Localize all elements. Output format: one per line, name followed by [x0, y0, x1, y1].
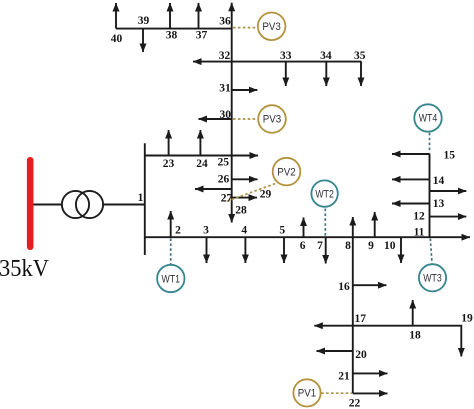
svg-text:28: 28: [235, 205, 247, 217]
svg-text:5: 5: [279, 225, 285, 237]
svg-text:26: 26: [218, 173, 230, 185]
svg-text:23: 23: [163, 158, 175, 170]
svg-text:2: 2: [175, 225, 181, 237]
svg-text:29: 29: [260, 188, 272, 200]
svg-text:24: 24: [196, 158, 208, 170]
svg-text:PV3: PV3: [262, 21, 281, 33]
svg-text:36: 36: [219, 16, 231, 28]
svg-text:39: 39: [138, 15, 150, 27]
svg-text:8: 8: [345, 240, 351, 252]
svg-text:9: 9: [368, 240, 374, 252]
svg-text:PV1: PV1: [298, 388, 317, 400]
svg-text:25: 25: [218, 157, 230, 169]
svg-text:WT1: WT1: [162, 274, 181, 286]
svg-text:21: 21: [338, 371, 350, 383]
svg-text:16: 16: [338, 281, 350, 293]
svg-text:35: 35: [354, 50, 366, 62]
svg-text:35kV: 35kV: [0, 255, 49, 282]
svg-text:3: 3: [203, 225, 209, 237]
svg-text:WT2: WT2: [315, 188, 334, 200]
svg-text:22: 22: [349, 397, 361, 409]
svg-text:14: 14: [433, 175, 445, 187]
svg-text:31: 31: [219, 83, 231, 95]
svg-text:WT3: WT3: [423, 273, 442, 285]
svg-text:40: 40: [111, 33, 123, 45]
svg-text:6: 6: [300, 240, 306, 252]
svg-text:10: 10: [384, 240, 396, 252]
svg-text:PV3: PV3: [263, 114, 282, 126]
svg-text:38: 38: [166, 30, 178, 42]
svg-text:7: 7: [317, 240, 323, 252]
svg-text:27: 27: [221, 192, 233, 204]
svg-text:33: 33: [280, 50, 292, 62]
svg-text:PV2: PV2: [277, 166, 296, 178]
svg-text:WT4: WT4: [419, 113, 438, 125]
svg-text:32: 32: [219, 50, 231, 62]
svg-text:37: 37: [196, 30, 208, 42]
svg-text:4: 4: [241, 225, 247, 237]
svg-text:17: 17: [354, 313, 366, 325]
svg-text:12: 12: [413, 210, 425, 222]
svg-text:1: 1: [138, 192, 144, 204]
svg-text:18: 18: [409, 330, 421, 342]
svg-text:19: 19: [461, 313, 473, 325]
svg-text:34: 34: [320, 50, 332, 62]
svg-text:11: 11: [414, 226, 425, 238]
svg-text:30: 30: [220, 109, 232, 121]
svg-text:13: 13: [433, 198, 445, 210]
svg-text:20: 20: [355, 349, 367, 361]
svg-text:15: 15: [444, 150, 456, 162]
